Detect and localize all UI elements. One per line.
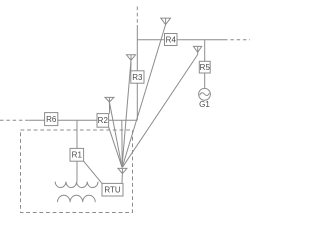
wire R1 to RTU diagonal — [84, 161, 102, 183]
radio link R4 antenna to RTU antenna — [122, 25, 165, 168]
box R1 — [70, 148, 84, 161]
wire bottom bus dashed left — [0, 119, 29, 121]
wire vertical riser solid — [136, 25, 138, 120]
svg-text:R1: R1 — [72, 151, 83, 160]
box R5 — [199, 61, 210, 73]
svg-text:R6: R6 — [46, 115, 57, 124]
wire bottom bus solid — [29, 119, 137, 121]
wire R1 drop from bottom bus — [76, 120, 78, 148]
transformer secondary winding (3 arcs) — [58, 195, 96, 202]
wire vertical riser dashed top — [136, 7, 138, 26]
enclosure dashed boundary — [21, 130, 133, 213]
box R2 — [97, 114, 109, 128]
svg-text:R2: R2 — [98, 116, 109, 125]
radio link R2 antenna to RTU antenna — [109, 102, 122, 167]
antenna for RTU — [118, 168, 127, 183]
svg-text:R4: R4 — [166, 36, 177, 45]
wire top bus solid — [137, 39, 224, 41]
antenna for R3 — [127, 55, 136, 71]
wire R5 drop from top bus — [204, 40, 206, 62]
svg-text:RTU: RTU — [104, 186, 121, 195]
generator G1 sine wave — [200, 93, 210, 96]
box RTU — [102, 183, 123, 196]
wire R5 to G1 — [204, 73, 206, 88]
svg-text:R5: R5 — [200, 63, 211, 72]
svg-text:R3: R3 — [132, 73, 143, 82]
radio link R2 box corner to RTU antenna — [109, 127, 122, 167]
wire R1 to transformer — [76, 161, 78, 181]
wire top bus dashed continuation — [224, 39, 250, 41]
radio link R5 antenna to RTU antenna — [123, 55, 198, 168]
antenna for R2 — [105, 97, 114, 113]
transformer primary winding (4 cups) — [55, 182, 98, 188]
radio link bus stub to RTU antenna — [121, 120, 123, 167]
antenna for R5 — [193, 46, 201, 54]
box R3 — [131, 71, 144, 83]
box R6 — [45, 113, 58, 126]
svg-text:G1: G1 — [199, 100, 210, 109]
generator G1 circle — [199, 88, 211, 100]
box R4 — [165, 34, 178, 46]
antenna for R4 — [161, 18, 171, 24]
radio link R3 antenna to RTU antenna — [122, 60, 131, 167]
